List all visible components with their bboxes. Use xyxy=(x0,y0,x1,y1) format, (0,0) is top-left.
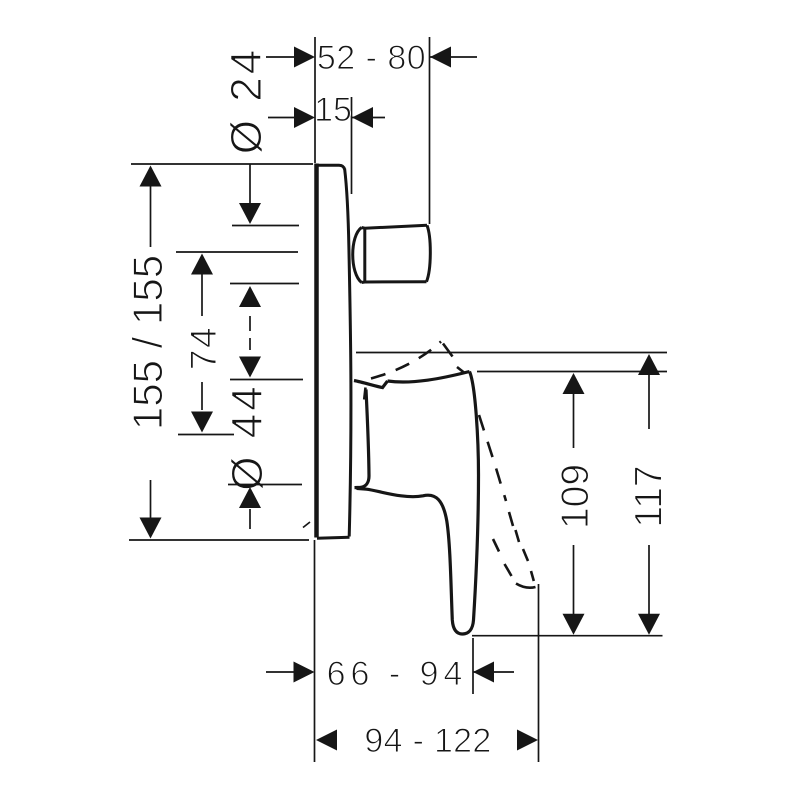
dim 74 arrow down xyxy=(191,412,213,433)
dim 15 arrow left xyxy=(294,107,315,128)
tick Ø44 bottom (y=484.5) xyxy=(228,484,302,486)
dim 15 arrow right xyxy=(352,107,373,128)
svg-text:109: 109 xyxy=(554,464,597,529)
dim 117 arrow up xyxy=(638,354,660,375)
bottom reference line y=635.5 xyxy=(472,635,663,637)
dim 52-80 leader left xyxy=(266,56,298,58)
dashed handle left edge lower dashes xyxy=(493,539,499,552)
svg-text:94 - 122: 94 - 122 xyxy=(364,722,491,760)
svg-text:74: 74 xyxy=(183,326,224,370)
wall plate front edge xyxy=(345,169,351,537)
wall extension line top (x=315) xyxy=(314,37,316,163)
tick knob center (y=252) xyxy=(176,251,298,253)
shared dashed stem xyxy=(249,316,251,331)
top extension line (y=164) xyxy=(131,163,313,165)
dim 74 arrow up xyxy=(191,254,213,275)
handle right edge and bottom tip xyxy=(357,372,479,635)
dim 15 leader left xyxy=(268,117,298,119)
lever tip extension line (x=473) xyxy=(472,638,474,694)
dim Ø44 stem bottom xyxy=(249,509,251,529)
wall plate left edge xyxy=(314,164,319,538)
knob bottom edge xyxy=(362,280,427,284)
plate front extension line (x=351.5) xyxy=(351,97,353,194)
extension line y=371.5 (handle top corner) xyxy=(477,371,667,373)
knob stem arc xyxy=(353,228,362,283)
dim 155/155 arrow up xyxy=(140,166,162,187)
svg-text:117: 117 xyxy=(628,465,671,527)
dim 117 line x=649 xyxy=(648,374,650,429)
wall extension line bottom (x=314.5) xyxy=(314,540,316,762)
dim 109 line x=573.5 xyxy=(573,393,575,448)
wall plate bottom edge xyxy=(317,537,350,538)
dashed tip extension line (x=538.5) xyxy=(538,584,540,762)
handle hub left edge xyxy=(355,390,370,488)
knob front extension line (x=429.5) xyxy=(429,37,431,224)
bottom extension line (y=540) xyxy=(129,539,309,541)
svg-text:155 / 155: 155 / 155 xyxy=(124,255,171,430)
wall plate top edge xyxy=(315,165,345,169)
dim Ø24 arrow up below knob xyxy=(239,286,261,307)
dim 74 line x=202 xyxy=(201,274,203,316)
dim 117 arrow down xyxy=(638,614,660,635)
svg-text:Ø 24: Ø 24 xyxy=(222,47,271,154)
tick knob top (y=225.5) xyxy=(232,225,299,227)
dim 155/155 arrow down xyxy=(140,518,162,539)
knob top edge xyxy=(362,225,428,228)
handle top edge xyxy=(388,372,470,383)
svg-text:52 - 80: 52 - 80 xyxy=(317,39,426,77)
dim Ø24 arrow down xyxy=(239,203,261,224)
svg-text:Ø 44: Ø 44 xyxy=(223,383,272,490)
dim 94-122 arrow right xyxy=(517,730,538,751)
dim Ø44 arrow down xyxy=(239,357,261,378)
dim 109 arrow down xyxy=(563,614,585,635)
extension line y=352.5 (dashed handle top) xyxy=(356,352,667,354)
dim 94-122 arrow left xyxy=(316,730,337,751)
dim 66-94 arrow left xyxy=(294,662,315,683)
dim 52-80 arrow left xyxy=(294,47,315,68)
small hub mark xyxy=(364,388,365,400)
tick 74 bottom (y=434.5) xyxy=(178,434,234,436)
dashed handle top arc xyxy=(371,342,441,379)
svg-text:66 - 94: 66 - 94 xyxy=(327,655,468,693)
dashed handle right edge lower dashes xyxy=(509,512,513,526)
dim 66-94 leader right xyxy=(473,671,514,673)
small tick at plate bottom left xyxy=(303,522,310,528)
dim 66-94 arrow right xyxy=(473,662,494,683)
dim 155/155 line x=150.5 xyxy=(150,186,152,247)
dim 109 arrow up xyxy=(563,373,585,394)
dim Ø24 stem from top line xyxy=(249,164,251,203)
tick Ø44 top (y=379.5) xyxy=(230,379,303,381)
dashed handle corner xyxy=(443,344,453,357)
handle hub top edge xyxy=(354,381,388,388)
dim 52-80 leader right xyxy=(430,56,477,58)
dim 52-80 arrow right xyxy=(430,47,451,68)
knob right edge xyxy=(427,225,431,281)
dashed handle tip bottom xyxy=(516,584,536,588)
dim Ø44 arrow up xyxy=(239,487,261,508)
dim 66-94 leader left xyxy=(266,671,297,673)
svg-text:15: 15 xyxy=(314,91,352,129)
tick knob bottom (y=283.5) xyxy=(230,283,299,285)
dim 15 leader right xyxy=(352,117,385,119)
dashed handle right edge upper xyxy=(479,415,506,501)
knob left edge xyxy=(363,228,366,282)
